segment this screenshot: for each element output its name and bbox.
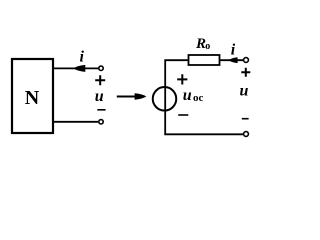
current arrowhead (left, i into N) bbox=[73, 65, 85, 72]
voltage source U1 (ideal, circle on wire) bbox=[153, 87, 177, 111]
svg-text:i: i bbox=[79, 49, 84, 66]
wire: box N bottom lead bbox=[53, 121, 98, 123]
resistor Ro bbox=[189, 55, 220, 65]
wire: source top to resistor bbox=[165, 60, 188, 134]
plus sign (right u) bbox=[241, 68, 250, 77]
minus sign (left u) bbox=[97, 109, 105, 111]
wire: resistor to right terminal bbox=[220, 59, 244, 61]
terminal node (right bottom) bbox=[244, 132, 249, 137]
network box N bbox=[12, 59, 53, 133]
plus sign (left u) bbox=[95, 75, 105, 85]
terminal node (left bottom) bbox=[99, 120, 103, 124]
wire: box N top lead bbox=[53, 67, 98, 69]
svg-text:oc: oc bbox=[193, 92, 204, 104]
wire: bottom return bbox=[164, 133, 243, 135]
svg-text:u: u bbox=[183, 87, 192, 104]
plus sign (uoc) bbox=[177, 74, 187, 84]
terminal node (left top) bbox=[99, 66, 103, 70]
svg-text:u: u bbox=[95, 88, 104, 105]
svg-text:N: N bbox=[25, 87, 40, 109]
terminal node (right top) bbox=[244, 58, 249, 63]
current arrowhead (right, i) bbox=[229, 57, 238, 63]
svg-text:o: o bbox=[205, 41, 210, 52]
equivalence arrow (middle) bbox=[117, 96, 138, 98]
svg-text:i: i bbox=[231, 42, 236, 59]
minus sign (uoc) bbox=[178, 114, 188, 116]
svg-text:u: u bbox=[240, 82, 249, 99]
minus sign (right u) bbox=[242, 118, 249, 120]
